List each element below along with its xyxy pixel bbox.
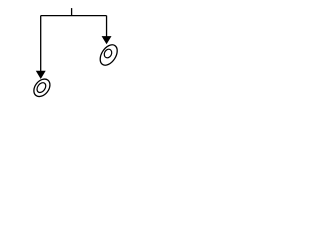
wire: right branch [106, 16, 108, 37]
node: right ring outer [97, 42, 121, 69]
wire: left branch [40, 16, 42, 72]
wire: horizontal bus [41, 15, 107, 17]
arrowhead: left [36, 71, 46, 79]
node: left ring outer [31, 76, 54, 100]
node: right ring inner [103, 48, 113, 59]
arrowhead: right [102, 36, 112, 44]
node: left ring inner [35, 81, 47, 94]
wire: top stub [71, 8, 73, 16]
